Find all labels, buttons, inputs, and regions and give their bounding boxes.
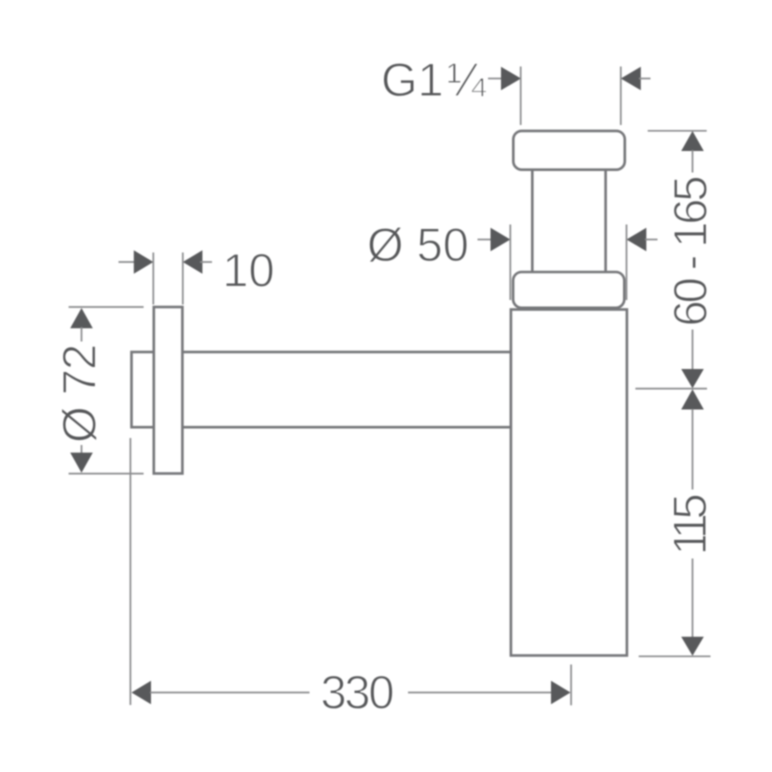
330 arrow left — [132, 681, 152, 704]
10 ext line left — [152, 253, 154, 305]
vertical inlet pipe — [532, 168, 605, 273]
D72 arrow down — [81, 445, 83, 454]
D50 ext line right — [626, 225, 628, 301]
dimension D72 (flange diameter) — [53, 307, 144, 474]
330 arrow right — [408, 692, 552, 694]
D72 arrow up — [70, 308, 93, 328]
330 ext line right — [570, 665, 572, 706]
60-165 ext line top — [648, 130, 707, 132]
svg-text:60 - 165: 60 - 165 — [664, 176, 717, 327]
60-165 arrow up — [681, 131, 704, 151]
D72 ext line top — [69, 306, 144, 308]
svg-text:Ø 72: Ø 72 — [53, 344, 106, 443]
10 arrow right — [183, 250, 203, 273]
compression nut — [513, 272, 624, 308]
D72 ext line bottom — [69, 473, 144, 475]
10 arrow left — [119, 261, 138, 263]
svg-text:10: 10 — [222, 244, 274, 297]
horizontal outlet pipe — [132, 352, 512, 427]
D50 arrow left — [478, 239, 494, 241]
G dim arrow left — [488, 78, 504, 80]
pipe axis ext line — [635, 388, 707, 390]
svg-text:Ø 50: Ø 50 — [367, 218, 469, 271]
svg-text:G1¼: G1¼ — [381, 53, 487, 106]
dimension 60 - 165 (inlet height range) — [635, 131, 716, 389]
trap body — [511, 310, 627, 656]
dimension 10 (flange thickness) — [119, 244, 275, 305]
10 ext line right — [182, 253, 184, 305]
D50 ext line left — [509, 225, 511, 301]
dimension D50 — [367, 218, 658, 300]
G dim arrow right — [621, 67, 641, 90]
G ext line right — [620, 67, 622, 126]
330 ext line left — [129, 438, 131, 705]
115 arrow down — [692, 559, 694, 639]
60-165 arrow down — [692, 330, 694, 371]
dimension 330 (wall to body centre) — [130, 438, 571, 719]
svg-text:115: 115 — [663, 493, 716, 555]
top nut — [513, 131, 625, 170]
115 ext line bottom — [639, 655, 711, 657]
115 arrow up — [681, 389, 704, 409]
svg-text:330: 330 — [321, 666, 395, 719]
D50 arrow right — [627, 228, 647, 251]
dimension G 1 1/4 — [381, 53, 651, 125]
dimension 115 (body height) — [639, 389, 716, 656]
wall flange — [154, 307, 183, 474]
G ext line left — [520, 67, 522, 126]
